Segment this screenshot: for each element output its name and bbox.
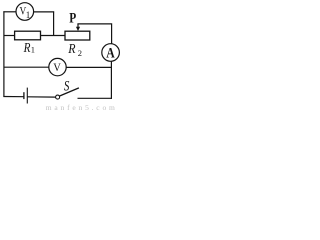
svg-text:R: R (67, 40, 75, 56)
wire (3, 96, 24, 98)
svg-text:manfen5.com: manfen5.com (46, 103, 118, 111)
svg-text:P: P (69, 9, 76, 26)
wire (27, 96, 55, 98)
wire (78, 97, 113, 99)
svg-text:1: 1 (26, 10, 31, 20)
ammeter A (102, 44, 120, 62)
wire (34, 11, 55, 13)
slider arrow (76, 24, 80, 31)
svg-text:S: S (64, 77, 70, 94)
wire (3, 11, 5, 97)
svg-text:2: 2 (78, 48, 82, 58)
battery (24, 88, 27, 104)
svg-text:V: V (53, 61, 61, 74)
label R1 (23, 40, 35, 55)
wire (4, 66, 49, 68)
wire (3, 11, 16, 13)
svg-text:A: A (106, 44, 115, 61)
resistor R1 (15, 31, 41, 40)
wire (66, 66, 112, 68)
resistor R2 (65, 31, 90, 40)
wire (4, 35, 15, 37)
voltmeter V (49, 58, 66, 75)
voltmeter V1 (16, 3, 34, 21)
svg-text:1: 1 (31, 45, 35, 55)
wire (110, 61, 112, 99)
wire (53, 11, 55, 35)
svg-text:R: R (23, 40, 31, 55)
label R2 (67, 40, 82, 58)
wire (77, 24, 111, 44)
wire (41, 35, 66, 37)
switch S (56, 88, 79, 99)
